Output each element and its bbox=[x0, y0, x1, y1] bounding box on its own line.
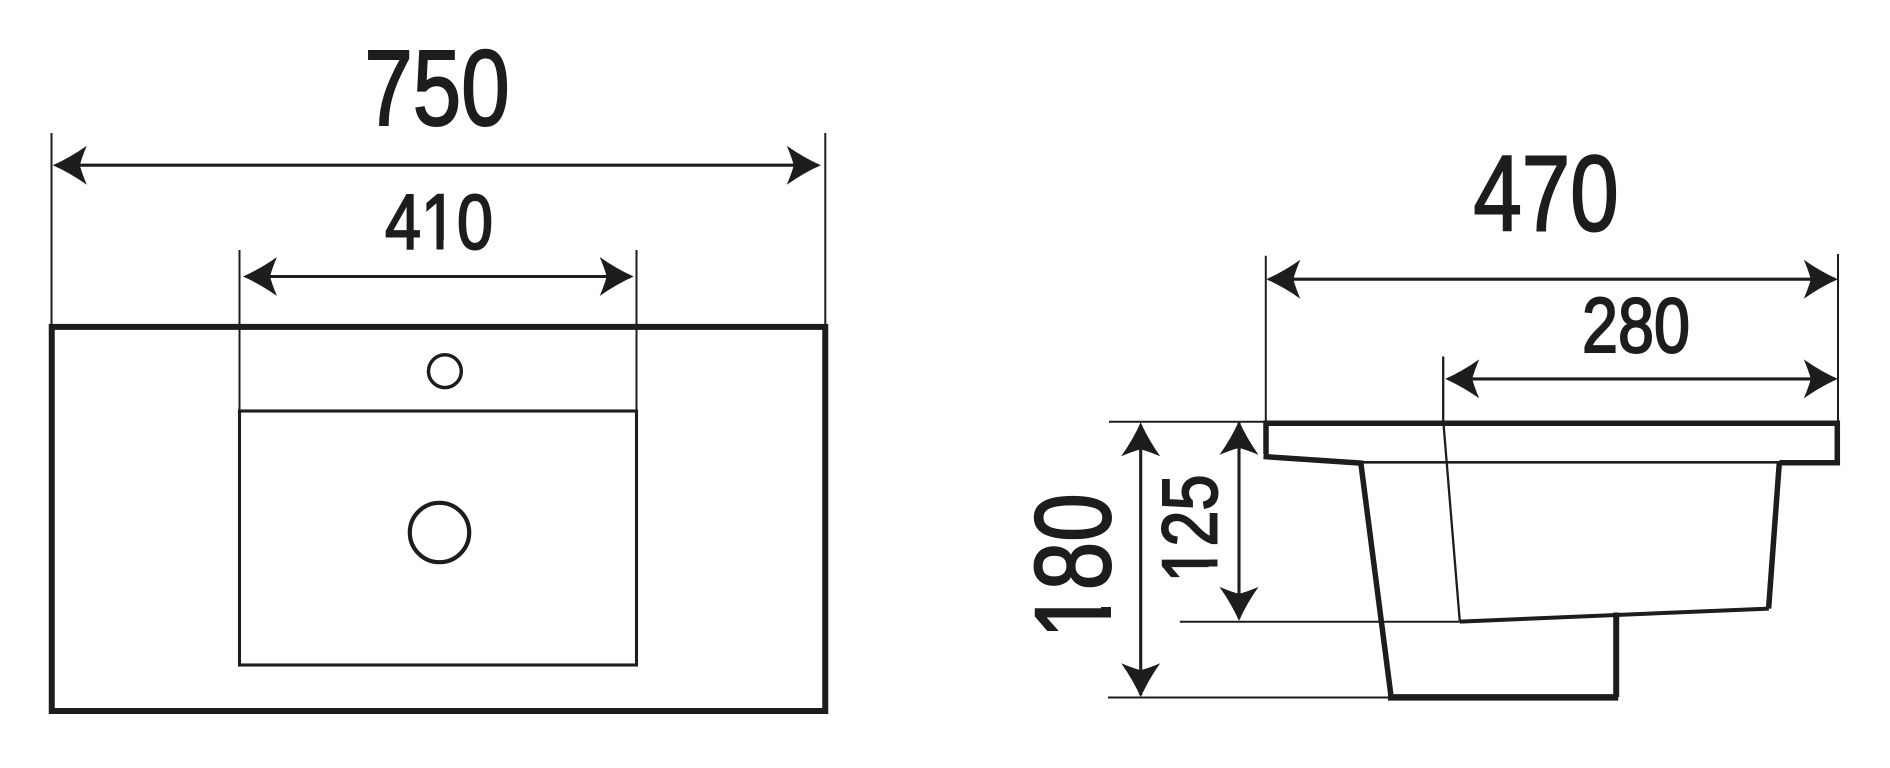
outer basin rim rectangle (top view) bbox=[52, 327, 826, 711]
dim 125 dimension line bbox=[1237, 423, 1240, 619]
glyph correction: mask upper foot of rotated "1" in 125 bbox=[1209, 547, 1220, 560]
svg-text:280: 280 bbox=[1582, 282, 1690, 369]
glyph correction: mask lower foot of rotated "1" in 180 bbox=[1100, 618, 1111, 635]
glyph correction: mask left foot of "1" in 410 bbox=[424, 240, 437, 250]
dim 750 left arrow bbox=[53, 146, 87, 185]
slab underside left thick segment bbox=[1264, 457, 1364, 464]
dim 470 left arrow bbox=[1266, 260, 1300, 299]
dim 280 right arrow bbox=[1804, 359, 1838, 398]
dim 750 right arrow bbox=[787, 146, 821, 185]
dim 750 left extension line bbox=[51, 133, 53, 325]
dim 180 dimension line bbox=[1139, 425, 1142, 695]
svg-text:410: 410 bbox=[385, 179, 493, 266]
dim 180 top arrow bbox=[1121, 422, 1160, 456]
dim 280 left arrow bbox=[1445, 359, 1479, 398]
dim 470 right arrow bbox=[1804, 260, 1838, 299]
dim 410 right arrow bbox=[600, 257, 634, 296]
bowl underside diagonal bbox=[1460, 609, 1769, 622]
svg-text:470: 470 bbox=[1473, 133, 1618, 254]
dim 750 dimension line bbox=[56, 164, 818, 167]
basin outer left wall and foot left edge bbox=[1361, 462, 1391, 695]
dim 470 left extension line bbox=[1265, 256, 1267, 421]
bottom reference line for 125 bbox=[1180, 621, 1460, 623]
slab underside thin line bbox=[1362, 461, 1780, 464]
dim 750 right extension line bbox=[824, 133, 826, 325]
dim 470/280 right extension line bbox=[1837, 254, 1839, 421]
svg-text:125: 125 bbox=[1147, 475, 1234, 583]
dim 410 dimension line bbox=[246, 275, 631, 278]
inner bowl rectangle bbox=[240, 411, 637, 665]
top extension line for 180 and 125 bbox=[1109, 421, 1266, 423]
foot bottom bbox=[1388, 694, 1618, 701]
dim 410 left arrow bbox=[243, 257, 277, 296]
glyph correction: mask right foot of "1" in 410 bbox=[444, 240, 456, 250]
countertop slab outline bbox=[1266, 423, 1837, 463]
dim 410 right extension line bbox=[636, 250, 638, 411]
dim 280 dimension line bbox=[1448, 377, 1835, 380]
glyph correction: mask upper foot of rotated "1" in 180 bbox=[1100, 593, 1111, 608]
svg-text:180: 180 bbox=[1012, 493, 1133, 638]
svg-text:750: 750 bbox=[364, 27, 509, 148]
foot right edge bbox=[1613, 613, 1619, 698]
basin inner wall with 280 extension bbox=[1443, 357, 1460, 622]
faucet hole bbox=[429, 355, 462, 388]
bottom extension line for 180 bbox=[1108, 697, 1390, 699]
dim 125 top arrow bbox=[1220, 421, 1259, 455]
dim 410 left extension line bbox=[239, 250, 241, 411]
dim 125 bottom arrow bbox=[1220, 587, 1259, 621]
glyph correction: mask lower foot of rotated "1" in 125 bbox=[1209, 567, 1220, 580]
dim 180 bottom arrow bbox=[1121, 663, 1160, 697]
dim 470 dimension line bbox=[1269, 278, 1835, 281]
drain hole bbox=[410, 503, 469, 562]
basin outer right wall bbox=[1769, 463, 1780, 609]
